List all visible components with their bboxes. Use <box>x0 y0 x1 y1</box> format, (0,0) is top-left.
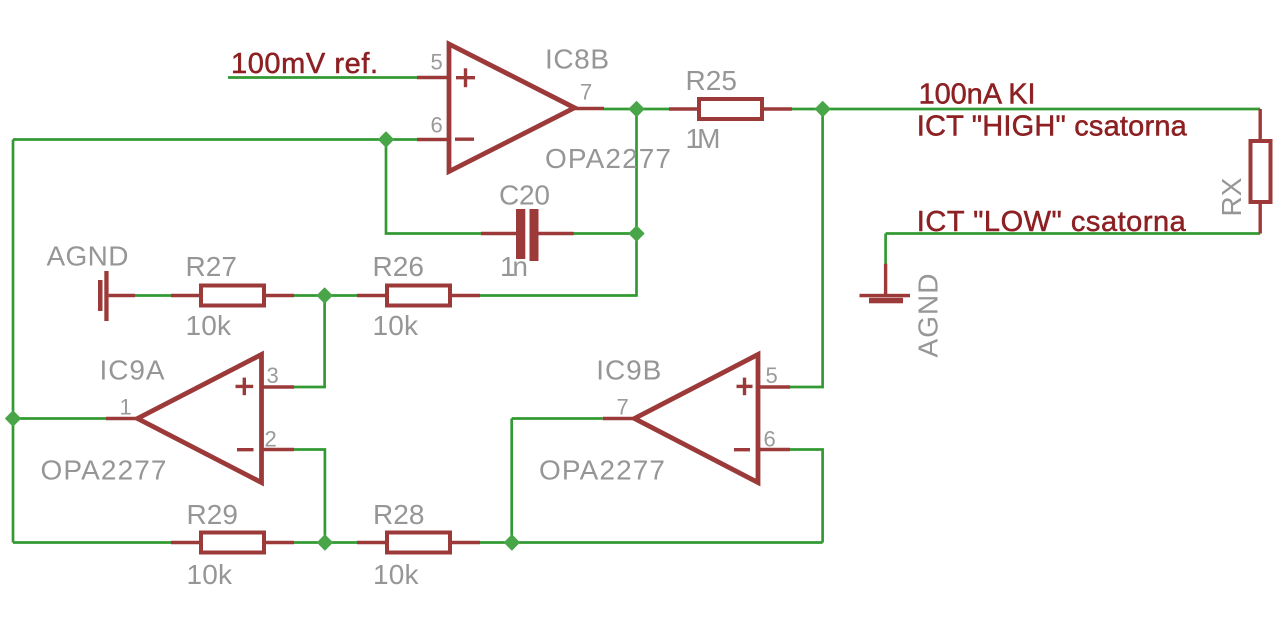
svg-text:7: 7 <box>617 395 629 420</box>
op-amp IC9A plus sign <box>236 378 254 396</box>
op-amp IC9A pin 3 stub <box>262 385 295 388</box>
wire C20 right to vertical <box>574 232 637 235</box>
svg-text:AGND: AGND <box>47 241 129 272</box>
wire IC9B out riser <box>510 419 513 543</box>
resistor R26 right stub <box>452 294 480 297</box>
resistor R27 left stub <box>171 294 199 297</box>
op-amp IC9B pin 5 stub <box>758 385 790 388</box>
wire ICT LOW horizontal <box>886 232 1261 235</box>
resistor RX bottom stub <box>1258 204 1261 234</box>
ground AGND2 pin stub <box>884 264 887 294</box>
op-amp U IC8B triangle <box>449 44 575 172</box>
resistor R28 right stub <box>452 541 480 544</box>
svg-text:1: 1 <box>120 395 132 420</box>
op-amp IC8B pin 7 output stub <box>574 107 604 110</box>
resistor R27 right stub <box>266 294 294 297</box>
resistor R29 body <box>201 533 264 553</box>
ground AGND1 pin stub <box>109 294 135 297</box>
op-amp IC8B plus sign <box>456 68 475 87</box>
wire bottom left segment <box>13 541 171 544</box>
svg-text:100mV ref.: 100mV ref. <box>231 48 378 80</box>
svg-text:5: 5 <box>766 363 778 388</box>
ground AGND1 long bar <box>104 271 108 321</box>
svg-text:R26: R26 <box>373 251 425 282</box>
wire riser IC9B pin5 <box>790 111 823 388</box>
svg-text:OPA2277: OPA2277 <box>545 143 671 174</box>
svg-text:R25: R25 <box>686 65 738 96</box>
op-amp IC9A pin 1 output stub <box>106 417 138 420</box>
junction at R28 right <box>505 535 520 550</box>
op-amp U IC9B triangle <box>635 355 759 483</box>
capacitor C20 left stub <box>481 232 516 235</box>
wire R25 to RX top <box>792 108 1260 111</box>
wire net 100mV ref horizontal <box>228 76 417 79</box>
op-amp IC8B minus sign <box>455 137 474 140</box>
svg-text:1M: 1M <box>686 123 721 154</box>
wire right vertical feedback <box>635 109 638 296</box>
wire AGND drop <box>884 234 887 265</box>
op-amp U IC9A triangle <box>138 355 262 483</box>
svg-text:RX: RX <box>1216 177 1247 216</box>
resistor R29 left stub <box>171 541 199 544</box>
op-amp IC9A pin 2 stub <box>262 448 295 451</box>
svg-text:5: 5 <box>431 50 443 75</box>
op-amp IC8B pin 5 stub <box>417 76 449 79</box>
svg-text:10k: 10k <box>186 310 233 341</box>
svg-text:AGND: AGND <box>913 274 944 358</box>
svg-text:ICT "LOW" csatorna: ICT "LOW" csatorna <box>917 206 1187 238</box>
op-amp IC9B minus sign <box>734 448 750 451</box>
svg-text:R29: R29 <box>187 499 239 530</box>
svg-text:2: 2 <box>265 426 277 451</box>
svg-text:R28: R28 <box>373 499 425 530</box>
resistor RX top stub <box>1258 109 1261 139</box>
svg-text:1n: 1n <box>500 251 528 282</box>
op-amp IC9B pin 7 output stub <box>603 417 635 420</box>
wire junction3 riser to C20 <box>386 140 481 234</box>
capacitor C20 left plate <box>516 209 525 259</box>
op-amp IC9B plus sign <box>737 378 753 396</box>
junction at R25 left <box>629 102 644 117</box>
junction at R25 right <box>815 102 830 117</box>
wire R26 right to vertical <box>480 294 638 297</box>
wire IC9B out net <box>512 417 603 420</box>
svg-text:6: 6 <box>431 113 443 138</box>
op-amp IC9A minus sign <box>237 448 254 451</box>
wire IC9A pin2 drop <box>294 450 325 543</box>
svg-text:OPA2277: OPA2277 <box>41 454 167 485</box>
svg-text:IC8B: IC8B <box>545 44 609 75</box>
wire R27 to R26 <box>294 294 357 297</box>
svg-text:10k: 10k <box>187 559 234 590</box>
wire riser junction5 to IC9A pin3 <box>294 296 325 388</box>
op-amp IC9B pin 6 stub <box>758 448 790 451</box>
svg-text:10k: 10k <box>373 310 420 341</box>
svg-text:10k: 10k <box>373 559 420 590</box>
resistor R28 body <box>387 533 450 553</box>
wire riser IC9B pin6 <box>790 450 823 543</box>
svg-text:OPA2277: OPA2277 <box>539 454 665 485</box>
ground AGND2 short bar <box>869 298 903 304</box>
op-amp IC8B pin 6 stub <box>417 138 449 141</box>
svg-text:R27: R27 <box>186 251 238 282</box>
ground AGND1 short bar <box>98 280 103 311</box>
svg-text:100nA KI: 100nA KI <box>919 79 1036 111</box>
junction at pin6 net <box>379 132 394 147</box>
wire left vertical <box>12 140 15 543</box>
svg-text:C20: C20 <box>499 179 550 210</box>
svg-text:IC9A: IC9A <box>100 355 165 386</box>
capacitor C20 right plate <box>530 209 539 261</box>
junction at IC9A out <box>6 411 21 426</box>
wire IC9A out net <box>13 417 106 420</box>
svg-text:IC9B: IC9B <box>596 355 661 386</box>
wire pin6 net horizontal <box>13 138 417 141</box>
resistor R29 right stub <box>266 541 294 544</box>
svg-text:ICT "HIGH" csatorna: ICT "HIGH" csatorna <box>917 111 1188 143</box>
junction at R29 R28 <box>318 535 333 550</box>
resistor RX body <box>1251 141 1271 202</box>
svg-text:6: 6 <box>764 426 776 451</box>
wire bottom between R29 R28 <box>294 541 357 544</box>
wire IC8B out to R25 <box>604 108 669 111</box>
svg-text:3: 3 <box>267 363 279 388</box>
resistor R26 body <box>387 286 450 306</box>
resistor R28 left stub <box>357 541 385 544</box>
junction at R27 R26 <box>317 288 332 303</box>
resistor R25 body <box>699 99 762 119</box>
wire AGND1 to R27 <box>135 294 171 297</box>
resistor R25 right stub <box>764 107 792 110</box>
junction at C20 right <box>629 226 644 241</box>
svg-text:7: 7 <box>580 80 592 105</box>
capacitor C20 right stub <box>539 232 574 235</box>
resistor R26 left stub <box>357 294 385 297</box>
resistor R27 body <box>201 286 264 306</box>
wire bottom right segment <box>480 541 823 544</box>
ground AGND2 long bar <box>860 294 911 298</box>
resistor R25 left stub <box>669 107 697 110</box>
